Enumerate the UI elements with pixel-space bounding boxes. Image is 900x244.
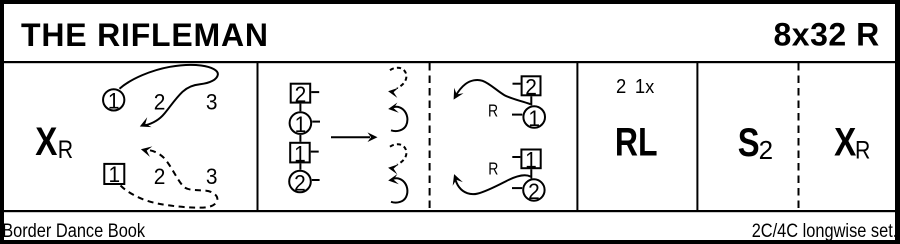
svg-text:R: R	[58, 135, 73, 163]
svg-text:2: 2	[294, 171, 306, 196]
arrow lead down	[331, 136, 370, 138]
dancer square 2 top pair	[522, 76, 541, 95]
svg-text:2: 2	[295, 83, 307, 108]
track 1st woman solid curve	[120, 65, 218, 125]
turn hook solid top	[391, 107, 407, 131]
bar separator dashed 2	[429, 63, 431, 210]
svg-text:3: 3	[206, 90, 218, 115]
dancer square 1 (1st man)	[104, 164, 124, 184]
bar separator solid 4	[696, 63, 698, 210]
title separator line	[0, 61, 900, 63]
track bottom couple turn right curve	[455, 175, 531, 194]
dancer circle 1 with facing tick	[290, 112, 312, 134]
svg-text:2: 2	[528, 179, 540, 204]
svg-text:2: 2	[154, 90, 166, 115]
svg-text:2: 2	[154, 165, 166, 190]
svg-text:S: S	[738, 120, 760, 165]
svg-text:2: 2	[759, 135, 773, 165]
dancer circle 1 (1st woman)	[103, 89, 124, 110]
svg-text:1: 1	[108, 89, 120, 114]
connector lines stack	[299, 104, 301, 112]
svg-text:Border Dance Book: Border Dance Book	[2, 219, 146, 241]
turn hook solid bottom	[391, 178, 407, 202]
svg-text:3: 3	[206, 165, 218, 190]
dancer circle 2 with facing tick	[289, 171, 311, 193]
svg-text:2: 2	[616, 75, 626, 98]
svg-text:1: 1	[635, 75, 645, 98]
track 1st man dashed curve	[121, 150, 218, 208]
svg-text:1: 1	[294, 142, 306, 167]
track top couple turn right curve	[455, 80, 530, 104]
dancer square 1 with facing tick	[290, 143, 310, 163]
dancer circle 2 bottom pair	[523, 179, 544, 200]
svg-text:RL: RL	[615, 119, 658, 164]
dancer square 2 with facing tick	[291, 84, 311, 103]
turn hook dashed bottom	[390, 144, 406, 164]
svg-text:THE RIFLEMAN: THE RIFLEMAN	[21, 17, 269, 53]
bar separator solid 3	[576, 63, 578, 210]
svg-text:2C/4C longwise set.: 2C/4C longwise set.	[752, 219, 898, 241]
svg-text:X: X	[35, 119, 58, 164]
dancer square 1 bottom pair	[521, 150, 540, 169]
svg-text:R: R	[488, 160, 498, 179]
svg-text:X: X	[834, 120, 857, 165]
svg-text:1: 1	[525, 148, 537, 173]
svg-text:1: 1	[528, 106, 540, 131]
footer separator line	[0, 210, 900, 212]
svg-text:1: 1	[295, 113, 307, 138]
dancer circle 1 top pair	[523, 106, 545, 128]
bar separator dashed 5	[798, 63, 800, 210]
svg-text:2: 2	[525, 75, 537, 100]
svg-text:8x32 R: 8x32 R	[774, 16, 880, 52]
svg-text:1: 1	[108, 163, 120, 188]
connector bottom pair	[530, 169, 532, 178]
connector top pair	[530, 96, 532, 105]
svg-text:R: R	[488, 102, 498, 121]
bar separator solid 1	[257, 63, 259, 210]
turn hook dashed top	[390, 68, 406, 88]
svg-text:x: x	[645, 77, 654, 97]
svg-text:R: R	[855, 136, 870, 164]
